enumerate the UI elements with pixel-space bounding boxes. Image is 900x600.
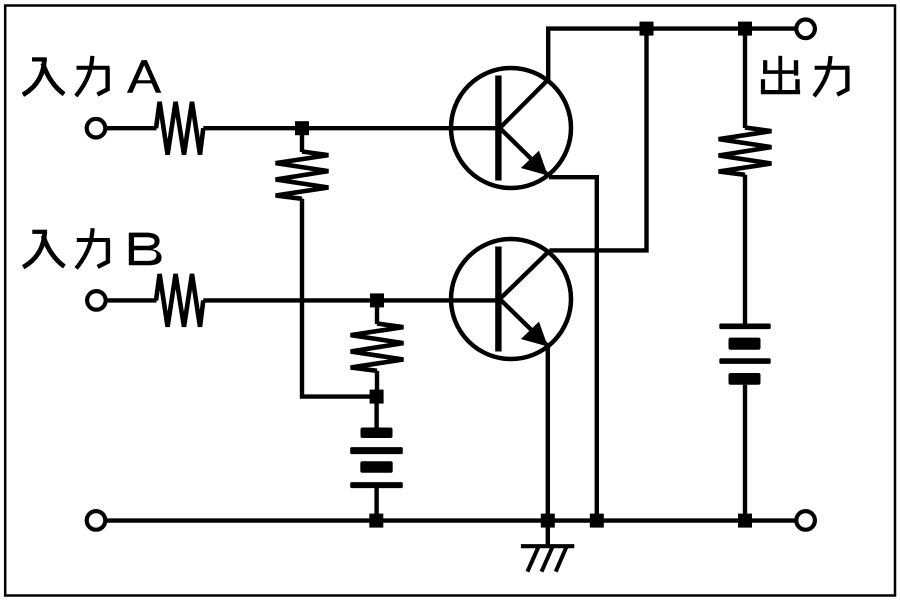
battery BT1	[350, 428, 403, 489]
resistor R2	[156, 274, 203, 327]
junction bottom rail Q1 emitter	[590, 514, 604, 528]
resistor R1	[156, 102, 203, 155]
wire R3 to bias node	[302, 199, 372, 397]
wire bias node to battery BT1	[374, 397, 378, 428]
wire Q1 collector to output rail	[548, 29, 805, 81]
junction top rail Q2 collector	[640, 22, 654, 36]
label 入力B	[23, 228, 161, 268]
junction bottom rail ground	[541, 514, 555, 528]
wire input B lead	[105, 298, 157, 302]
input terminal A	[87, 119, 106, 138]
transistor Q1	[451, 68, 571, 188]
junction node A	[295, 121, 309, 135]
input terminal B	[87, 291, 106, 310]
wire Q1 emitter to bottom rail	[549, 177, 597, 517]
junction bottom rail battery BT1	[369, 514, 383, 528]
wire R2 to Q2 base	[203, 298, 497, 302]
bottom-left terminal	[87, 511, 106, 530]
wire R1 to Q1 base	[203, 126, 497, 130]
battery BT2	[719, 324, 770, 385]
ground symbol	[521, 525, 574, 572]
resistor R3	[276, 152, 329, 199]
wire battery BT2 to bottom rail	[743, 385, 747, 518]
wire battery BT1 to bottom rail	[374, 488, 378, 518]
wire Q2 collector to top rail junction	[549, 30, 646, 250]
junction bottom rail right battery	[738, 514, 752, 528]
resistor R5	[719, 128, 772, 175]
junction bias node	[370, 390, 384, 404]
label 出力	[761, 56, 850, 96]
wire node B to R4	[375, 300, 379, 324]
resistor R4	[351, 324, 404, 371]
junction node B	[370, 293, 384, 307]
wire input A lead	[105, 126, 157, 130]
wire R4 to bias node	[375, 371, 379, 392]
junction top rail R5	[738, 22, 752, 36]
wire node A to R3	[300, 128, 304, 152]
label 入力A	[23, 56, 161, 96]
bottom rail	[104, 518, 806, 522]
output terminal	[796, 20, 815, 39]
wire Q2 emitter to ground junction	[546, 345, 550, 518]
bottom-right terminal	[796, 511, 815, 530]
wire R5 to battery BT2	[743, 175, 747, 324]
transistor Q2	[451, 239, 571, 359]
wire top rail to R5	[743, 30, 747, 128]
